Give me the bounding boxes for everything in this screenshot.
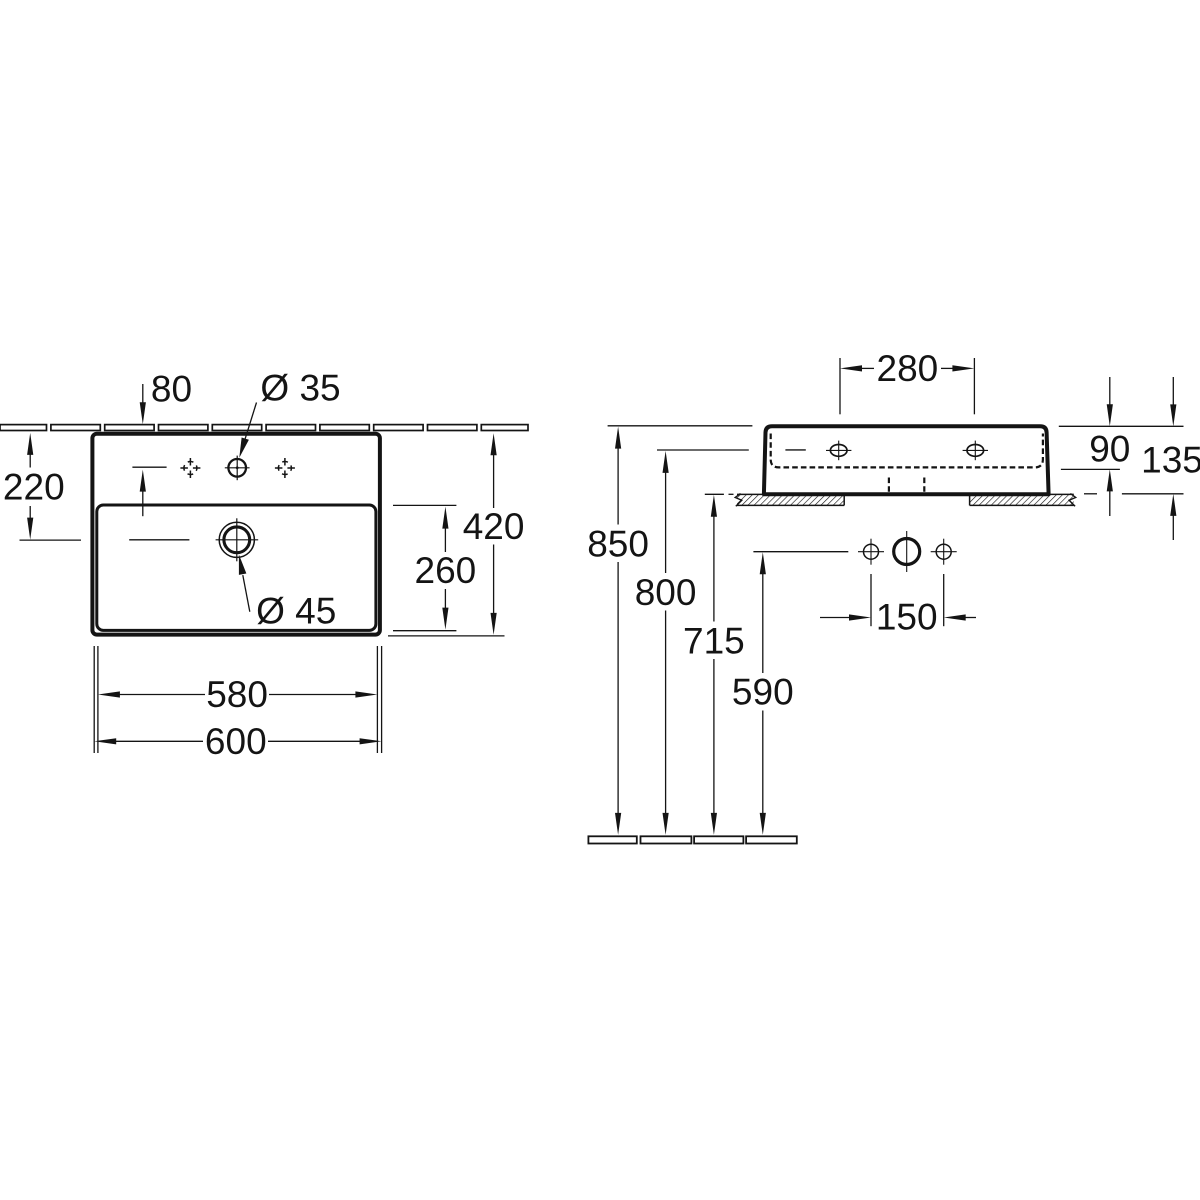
dimension 135 line with arrows [1170,377,1176,540]
dimension 220 line with arrows [27,433,33,540]
svg-text:580: 580 [206,674,268,715]
svg-text:135: 135 [1141,440,1200,481]
dimension 420 line with arrows [491,433,497,635]
extension line bowl bottom edge (right, for 260) [393,630,456,632]
right overflow/fixing hole (side elevation) [963,441,988,461]
dimension 580 line with arrows [98,691,378,697]
dimension 260 line with arrows [442,507,448,630]
dimension 80 lower arrow [140,470,146,517]
dimension 80 upper arrow [140,384,146,424]
svg-text:Ø 35: Ø 35 [260,368,340,409]
svg-text:80: 80 [151,369,192,410]
extension lines below basin (for 580/600) [94,646,381,753]
centre tap hole Ø35 (plan view) [225,456,250,481]
dimension 280 line with arrows [840,365,974,371]
extension line wall hole level (for 590) [753,551,848,553]
svg-text:260: 260 [415,550,477,591]
tap-hole level line inside basin (side elevation) [785,449,805,451]
hidden bowl interior (dashed, side elevation) [771,434,1043,468]
wall line under pads (between supports) [844,493,969,495]
extension line tap-hole level (left side, for 800) [657,449,749,451]
floor tile line (bottom) [588,836,796,843]
dimension 590 line with arrows [760,552,766,835]
extension line basin top (left side, for 850) [608,425,753,427]
extension line bowl top edge (right, for 260) [393,504,456,506]
dimension 600 line with arrows [94,738,381,744]
extension line at waste-hole level (left, for 220) [20,539,82,541]
wall tile line (top, plan view) [0,425,528,431]
dimension 800 line with arrows [663,451,669,835]
tap centreline segment inside basin [132,466,166,468]
svg-text:600: 600 [205,721,267,762]
extension line basin top edge (right side, for 90/135) [1059,425,1184,427]
extension line pad underside (for 135) [1084,493,1184,495]
svg-text:590: 590 [732,671,794,712]
extension line pad underside (left side, for 715) [705,493,734,495]
extension line front apron bottom (for 90) [1061,468,1120,470]
basin outer rim (plan view) [92,434,380,635]
right drill mark (tap hole position) [275,458,295,478]
svg-text:280: 280 [877,348,939,389]
hidden waste outlet (dashed, side elevation) [889,478,924,492]
left overflow/fixing hole (side elevation) [826,441,851,461]
svg-text:850: 850 [587,524,649,565]
dimension 850 line with arrows [615,427,621,835]
svg-text:715: 715 [683,620,745,661]
svg-text:800: 800 [635,572,697,613]
svg-text:220: 220 [3,466,65,507]
central waste hole (wall, side elevation) [894,531,920,572]
small left supply hole (wall, side elevation) [858,539,884,565]
basin bowl inner edge (plan view) [97,505,376,630]
svg-text:420: 420 [463,506,525,547]
waste hole Ø45 (plan view) [216,518,259,561]
leader arrow for Ø35 [239,403,256,458]
dimension 715 line with arrows [711,495,717,835]
extension line basin bottom edge (right, for 420) [388,635,505,637]
dimension 150 line with arrows [820,614,976,620]
basin outline (side elevation) [764,426,1049,494]
svg-text:150: 150 [876,597,938,638]
dimension 150 extension lines [871,574,944,626]
left drill mark (tap hole position) [180,458,200,478]
bowl centreline segment left of waste hole [129,539,189,541]
svg-text:Ø 45: Ø 45 [256,591,336,632]
left mounting pad (hatched section) [735,494,844,507]
leader arrow for Ø45 [239,555,250,612]
dimension 280 extension lines [840,358,974,414]
small right supply hole (wall, side elevation) [931,539,957,565]
right mounting pad (hatched section) [970,494,1076,507]
dimension 90 line with arrows [1107,377,1113,516]
svg-text:90: 90 [1089,429,1130,470]
